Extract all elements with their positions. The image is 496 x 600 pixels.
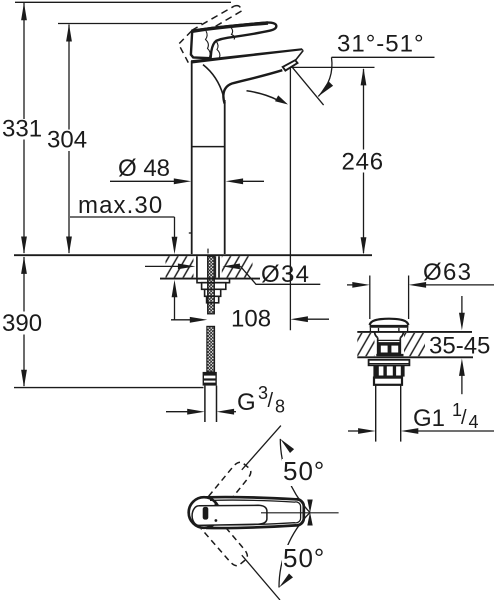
shank tube left wall <box>196 256 198 278</box>
dashed rotated handle lower <box>186 499 249 569</box>
spout top edge (thick) <box>191 48 304 63</box>
drain knurled nut <box>373 365 404 376</box>
drain deck hatching left <box>357 333 374 356</box>
svg-text:Ø34: Ø34 <box>261 261 310 288</box>
aerator level extension line <box>292 66 375 68</box>
max.30 leader lines <box>70 217 175 320</box>
spout underside curve <box>223 70 282 103</box>
drain deck hatching right <box>404 333 425 356</box>
countertop bottom line <box>160 278 260 280</box>
dimension Ø34 arrows <box>145 264 320 285</box>
dimension 35-45 <box>459 296 465 394</box>
dashed rotated handle upper <box>191 460 254 530</box>
svg-text:/: / <box>268 390 274 412</box>
knob logo bar <box>203 507 209 520</box>
svg-text:108: 108 <box>231 306 271 333</box>
dimension Ø63 arrows <box>347 282 494 288</box>
Ø63 extension line left <box>369 276 371 320</box>
shank tube right wall <box>218 256 220 278</box>
extension line: raised handle top level <box>15 1 231 3</box>
drain cap skirt <box>370 328 407 332</box>
aerator <box>283 60 298 70</box>
svg-text:50°: 50° <box>283 456 325 486</box>
svg-text:/: / <box>461 407 467 429</box>
washer under deck <box>197 279 230 283</box>
svg-text:4: 4 <box>469 412 479 432</box>
drain body window band <box>376 345 403 356</box>
body joint line <box>192 146 225 148</box>
countertop hatching right of faucet shank <box>222 256 253 277</box>
connection pipe G3/8 <box>205 386 217 422</box>
dimension 390 vertical line <box>21 256 27 387</box>
svg-text:Ø 48: Ø 48 <box>118 155 170 182</box>
drain body inner lines <box>378 340 401 343</box>
countertop top line <box>14 254 372 256</box>
31-51 angle arc with arrow <box>318 57 333 96</box>
upper 50 degree arc <box>280 439 312 513</box>
flow curved arrow under spout <box>247 91 289 105</box>
label 50 degrees upper <box>282 456 327 486</box>
max.30 arrowheads <box>172 237 178 298</box>
Ø63 extension line right <box>408 276 410 320</box>
handle lever wedge line <box>192 505 267 525</box>
hose end nut <box>203 372 217 386</box>
svg-text:246: 246 <box>342 149 384 176</box>
centerline <box>261 512 339 514</box>
svg-text:35-45: 35-45 <box>429 333 490 360</box>
faucet body right edge <box>224 100 226 254</box>
flexible hose braid <box>207 326 215 372</box>
dashed raised cartridge cover (side view) <box>179 31 192 63</box>
upper 50 degree ray <box>242 426 281 470</box>
countertop hatching left of faucet shank <box>166 256 194 277</box>
drain dome cap <box>370 319 409 327</box>
dimension 108 <box>171 316 329 322</box>
handle top view outer outline <box>206 497 304 528</box>
drain funnel sides <box>375 332 404 337</box>
spray direction leader line <box>293 68 324 105</box>
svg-text:max.30: max.30 <box>78 192 163 219</box>
dimension 331 vertical line <box>21 3 27 254</box>
drain deck bottom line <box>357 356 473 358</box>
lever surface detail squiggles <box>206 28 235 58</box>
svg-text:3: 3 <box>258 383 268 403</box>
svg-text:31°-51°: 31°-51° <box>337 31 425 58</box>
svg-text:8: 8 <box>275 397 285 417</box>
threaded stud through deck and nut <box>208 256 215 314</box>
svg-text:331: 331 <box>2 116 42 143</box>
dimension 246 vertical line <box>361 68 367 255</box>
lever handle (side view solid) <box>191 23 276 59</box>
dimension 304 vertical line <box>66 24 72 254</box>
mounting nut step 2 <box>205 289 221 296</box>
knob dots <box>215 503 218 522</box>
dashed raised lever (side view) <box>192 6 242 39</box>
extension line: handle rest top level <box>58 23 202 25</box>
svg-text:390: 390 <box>2 310 42 337</box>
dimension arrows Ø48 <box>110 178 264 184</box>
svg-text:Ø63: Ø63 <box>423 259 472 286</box>
lower 50 degree arc <box>279 512 313 588</box>
label G1 1/4 <box>413 400 479 432</box>
handle top view inner line <box>210 500 301 525</box>
drain deck top line <box>357 331 472 333</box>
mounting nut step 3 <box>207 296 219 303</box>
hose end reference line <box>14 387 204 389</box>
svg-text:304: 304 <box>47 127 87 154</box>
left edge tick <box>189 232 192 234</box>
shank extra line <box>215 256 217 278</box>
svg-text:50°: 50° <box>283 543 325 573</box>
spout tip face <box>296 50 304 60</box>
label G 3/8 <box>237 383 285 417</box>
mounting nut step 1 <box>202 283 226 290</box>
lower 50 degree ray <box>242 555 280 600</box>
body centerline tick <box>207 249 209 254</box>
svg-text:G: G <box>237 389 256 416</box>
31-51 underline <box>332 56 435 58</box>
drain body walls <box>378 338 401 356</box>
dimension arrows G1 1/4 <box>348 428 494 434</box>
svg-text:G1: G1 <box>413 405 445 432</box>
drain tailpipe <box>376 385 401 442</box>
aerator vertical extension line <box>289 67 291 330</box>
dimension arrows G3/8 <box>166 409 236 415</box>
spout-body fillet curve <box>203 65 223 96</box>
drain locknut flange <box>369 360 410 366</box>
label 50 degrees lower <box>282 543 327 573</box>
handle top view knob <box>189 497 220 528</box>
faucet body left edge <box>191 61 193 254</box>
drain collar <box>374 378 402 385</box>
